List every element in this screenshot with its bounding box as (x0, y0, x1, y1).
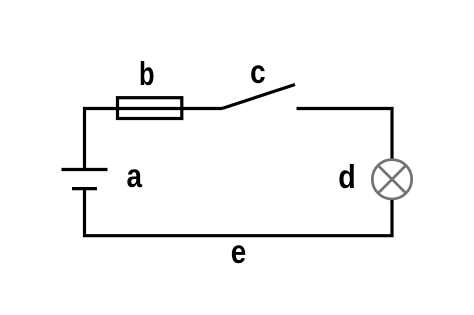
svg-text:a: a (126, 157, 142, 194)
battery A short negative plate (72, 187, 97, 190)
wire E from lamp bottom along bottom back to battery negative plate (85, 189, 393, 236)
svg-text:c: c (250, 53, 266, 90)
wire from switch right contact to lamp top (297, 109, 393, 159)
svg-text:b: b (139, 55, 155, 92)
lamp D cross line 2 (378, 165, 406, 193)
battery A long positive plate (62, 168, 108, 171)
wire from battery positive plate up and right through fuse to switch (85, 109, 223, 170)
switch C blade (open) (222, 85, 295, 109)
svg-text:d: d (338, 158, 356, 195)
fuse B body (118, 98, 182, 119)
svg-text:e: e (231, 233, 247, 270)
lamp D cross line 1 (378, 165, 406, 193)
lamp D circle (372, 160, 411, 199)
